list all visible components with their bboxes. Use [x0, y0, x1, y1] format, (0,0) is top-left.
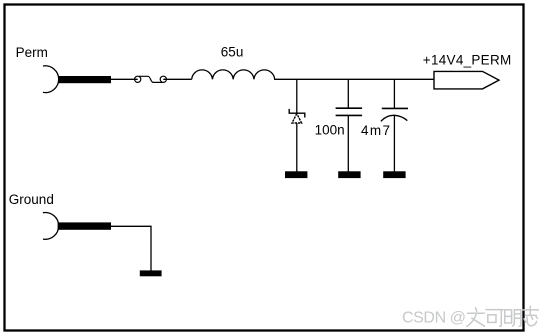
svg-text:100n: 100n — [315, 123, 345, 138]
svg-text:+14V4_PERM: +14V4_PERM — [423, 52, 512, 67]
svg-text:Perm: Perm — [16, 45, 48, 60]
svg-text:CSDN @: CSDN @ — [402, 310, 466, 327]
svg-text:Ground: Ground — [9, 192, 54, 207]
svg-text:4m7: 4m7 — [361, 123, 391, 138]
svg-text:65u: 65u — [221, 45, 244, 60]
